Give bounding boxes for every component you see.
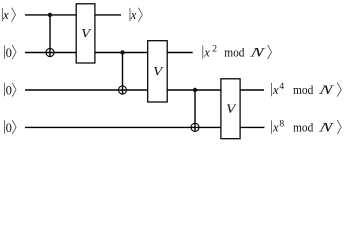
svg-text:0: 0 bbox=[6, 83, 12, 97]
svg-text:N: N bbox=[317, 82, 336, 97]
svg-text:4: 4 bbox=[279, 81, 284, 92]
svg-text:x: x bbox=[272, 83, 279, 97]
svg-text:x: x bbox=[272, 121, 279, 135]
svg-text:mod: mod bbox=[293, 121, 314, 135]
svg-text:0: 0 bbox=[6, 46, 12, 60]
svg-text:8: 8 bbox=[279, 118, 284, 129]
svg-text:mod: mod bbox=[293, 83, 314, 97]
svg-text:x: x bbox=[203, 46, 210, 60]
svg-text:mod: mod bbox=[224, 46, 245, 60]
svg-text:0: 0 bbox=[6, 121, 12, 135]
svg-text:N: N bbox=[317, 120, 336, 135]
svg-text:x: x bbox=[2, 8, 9, 22]
svg-text:N: N bbox=[248, 45, 267, 60]
svg-text:x: x bbox=[130, 8, 137, 22]
svg-text:2: 2 bbox=[212, 44, 217, 55]
